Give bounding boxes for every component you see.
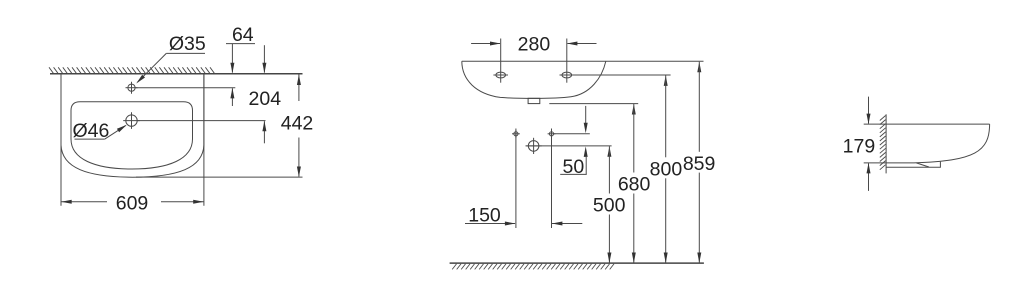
svg-text:64: 64: [232, 24, 254, 46]
svg-text:179: 179: [843, 136, 876, 158]
svg-text:442: 442: [281, 112, 314, 134]
svg-text:680: 680: [618, 174, 651, 196]
svg-text:500: 500: [593, 194, 626, 216]
svg-text:Ø35: Ø35: [169, 33, 206, 55]
svg-text:609: 609: [116, 193, 149, 215]
svg-text:800: 800: [650, 158, 683, 180]
svg-text:280: 280: [518, 33, 551, 55]
svg-text:204: 204: [249, 88, 282, 110]
svg-text:859: 859: [683, 153, 716, 175]
